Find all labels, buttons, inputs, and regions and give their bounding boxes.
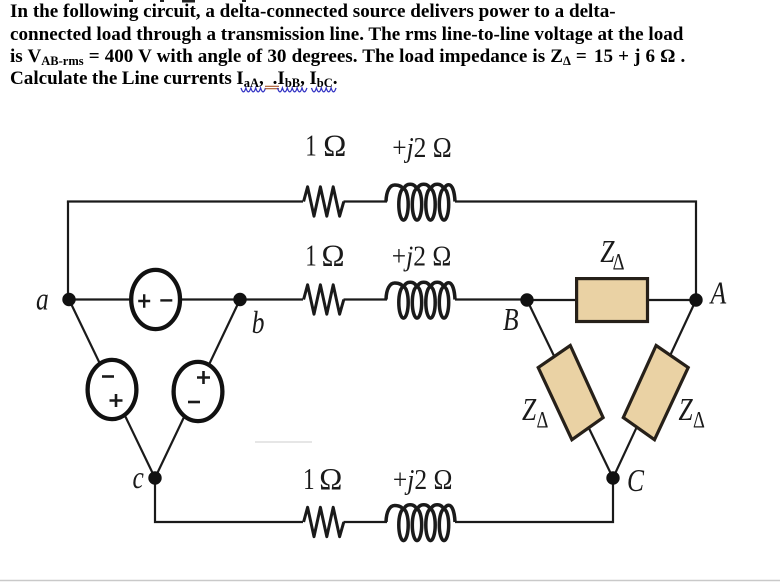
spellcheck squiggle under IbB	[278, 88, 307, 92]
svg-text:+j2 Ω: +j2 Ω	[392, 132, 452, 164]
inductor L bottom line +j2 ohm	[386, 505, 455, 541]
label node C	[627, 463, 645, 498]
resistor R top line 1 ohm	[304, 187, 344, 216]
label node b	[252, 305, 265, 340]
label +j2 ohm (top line)	[392, 132, 452, 164]
node c	[148, 471, 161, 484]
wire: source delta branch b to c	[155, 300, 240, 479]
inductor L middle line +j2 ohm	[386, 282, 455, 318]
svg-text:b: b	[252, 305, 265, 340]
svg-text:B: B	[503, 302, 519, 337]
svg-text:ZΔ: ZΔ	[600, 234, 624, 275]
node a	[62, 293, 75, 306]
svg-text:1: 1	[303, 462, 314, 496]
resistor R middle line 1 ohm	[304, 285, 344, 314]
svg-text:Ω: Ω	[322, 237, 345, 272]
node b	[233, 293, 246, 306]
node A	[689, 293, 702, 306]
wire: bottom line between resistor and inductor	[344, 521, 388, 523]
spellcheck squiggle under IaA	[241, 88, 265, 92]
svg-text:Ω: Ω	[319, 461, 342, 496]
svg-text:A: A	[709, 276, 727, 311]
stray faint line artifact	[255, 441, 312, 443]
wire: top line left vertical (a up to top line)	[67, 202, 69, 301]
node B	[520, 293, 533, 306]
label Z-delta (top box)	[600, 234, 624, 275]
cropped text remnants at very top	[129, 0, 246, 3]
label +j2 ohm (bottom line)	[393, 464, 453, 496]
problem statement text	[10, 2, 616, 21]
wire: bottom line from node c down and right to resistor	[155, 478, 303, 522]
svg-text:ZΔ: ZΔ	[522, 392, 548, 433]
svg-text:Ω: Ω	[323, 128, 346, 163]
load impedance Z-delta (horizontal box between B and A)	[577, 279, 648, 322]
svg-text:c: c	[133, 460, 145, 495]
label Z-delta (right tilted box)	[679, 392, 705, 433]
voltage source Vbc (circle on b-c branch, plus up minus down)	[174, 362, 223, 421]
wire: middle line between resistor and inductor	[344, 298, 388, 300]
wire: bottom line from inductor right to below node C and up to C	[455, 478, 613, 522]
label node c	[133, 460, 145, 495]
wire: middle line from inductor to node B	[455, 298, 527, 300]
svg-text:1: 1	[305, 238, 316, 272]
load impedance Z-delta (tilted box on A-C branch)	[623, 346, 688, 440]
inductor L top line +j2 ohm	[386, 184, 455, 220]
bottom separator line	[0, 580, 780, 582]
node C	[606, 471, 619, 484]
wire: load delta branch A to C	[613, 300, 696, 478]
label +j2 ohm (middle line)	[392, 240, 452, 272]
resistor R bottom line 1 ohm	[304, 507, 344, 536]
voltage source Vab (circle with + -)	[131, 270, 180, 329]
svg-text:1: 1	[305, 128, 316, 162]
label 1 ohm (top line)	[305, 128, 346, 163]
wire: source delta branch a to c	[69, 300, 155, 479]
red correction mark	[265, 86, 279, 88]
load impedance Z-delta (tilted box on B-C branch)	[538, 346, 603, 440]
wire: load top branch B to A	[527, 299, 696, 301]
label Z-delta (left tilted box)	[522, 392, 548, 433]
svg-text:ZΔ: ZΔ	[679, 392, 705, 433]
label node B	[503, 302, 519, 337]
svg-text:C: C	[627, 463, 645, 498]
wire: top line from inductor to right corner and down to node A	[455, 202, 696, 301]
wire: load delta branch B to C	[527, 300, 613, 478]
label 1 ohm (bottom line)	[303, 461, 342, 496]
label node A	[709, 276, 727, 311]
wire: top line horizontal from corner to resistor	[67, 200, 303, 202]
label node a	[36, 282, 49, 317]
spellcheck squiggle under IbC	[312, 88, 336, 92]
label 1 ohm (middle line)	[305, 237, 344, 272]
svg-text:+j2 Ω: +j2 Ω	[392, 240, 452, 272]
voltage source Vca (circle on a-c branch, minus up plus down)	[88, 360, 137, 419]
wire: top line between resistor and inductor	[344, 200, 388, 202]
svg-text:+j2 Ω: +j2 Ω	[393, 464, 453, 496]
svg-text:a: a	[36, 282, 49, 317]
wire: middle line from node a to resistor (through source)	[69, 298, 303, 300]
